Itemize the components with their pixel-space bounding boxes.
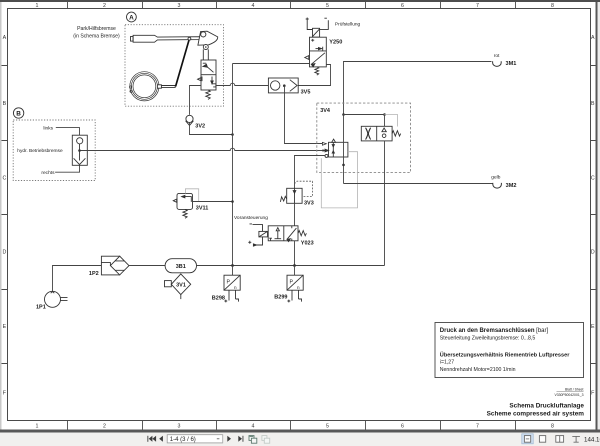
- wire 1P1 to 1P2: [53, 266, 102, 292]
- spring right: [298, 231, 306, 236]
- svg-text:Y250: Y250: [329, 40, 342, 46]
- pressure regulator 3V3: [280, 188, 302, 203]
- toolbar controls: [147, 436, 243, 442]
- svg-text:B: B: [591, 101, 595, 107]
- prev page button: [159, 436, 163, 442]
- svg-text:3V3: 3V3: [304, 200, 314, 206]
- svg-text:1: 1: [36, 424, 39, 430]
- wire hand valve outlet to shuttle 3V5 (with jump): [216, 83, 268, 85]
- svg-text:6: 6: [401, 424, 404, 430]
- bottom cell: flow path with vent: [198, 78, 201, 81]
- vent arrow left: [173, 199, 176, 202]
- svg-text:8: 8: [551, 3, 554, 9]
- coil leads: [307, 21, 312, 30]
- valve body: [268, 226, 298, 241]
- svg-text:Nenndrehzahl Motor=2100 1/min: Nenndrehzahl Motor=2100 1/min: [440, 367, 516, 373]
- svg-text:B: B: [3, 101, 7, 107]
- svg-text:i=1,27: i=1,27: [440, 360, 454, 366]
- wire 3V5 outlet to 3V4 actuator top port: [285, 86, 323, 144]
- air reservoir 3B1: [165, 259, 196, 273]
- terminal +: [248, 241, 256, 246]
- spring below: [183, 209, 187, 218]
- node 3V4 pilot tee left: [342, 113, 345, 116]
- svg-text:3V4: 3V4: [320, 108, 331, 114]
- section B: hydraulic service brake: [13, 108, 95, 181]
- svg-text:B: B: [16, 110, 21, 117]
- lever pull rod (diagonal): [176, 39, 190, 87]
- svg-text:C: C: [2, 176, 6, 182]
- valve body: [310, 37, 327, 67]
- svg-text:B298: B298: [212, 295, 225, 301]
- svg-text:Scheme compressed air system: Scheme compressed air system: [487, 410, 585, 417]
- svg-text:Voransteuerung: Voransteuerung: [234, 215, 268, 221]
- band anchor block: [157, 85, 161, 88]
- svg-text:n: n: [297, 285, 300, 290]
- vent triangle on top: [332, 139, 336, 142]
- wire 3V3 to Y023: [294, 203, 296, 226]
- node service brake output: [78, 149, 81, 152]
- wire 3V11 to supply riser: [193, 201, 233, 203]
- shuttle valve 3V5: [268, 78, 298, 93]
- viewer chrome: bottom toolbar strip: [0, 433, 600, 446]
- viewer chrome: right page edge: [596, 2, 598, 430]
- top cell: blocked seat: [203, 64, 207, 67]
- svg-text:A: A: [129, 14, 134, 21]
- svg-text:3V2: 3V2: [195, 124, 205, 130]
- svg-text:1-4 (3 / 6): 1-4 (3 / 6): [170, 437, 196, 443]
- copy page icons: [249, 436, 270, 444]
- svg-text:hydr. Betriebsbremse: hydr. Betriebsbremse: [17, 148, 63, 154]
- svg-text:6: 6: [401, 3, 404, 9]
- right cell: check valve: [382, 128, 386, 132]
- pilot line (gray) to throttle valve spring side: [385, 115, 398, 127]
- next page button: [227, 436, 231, 442]
- wire master cylinder to 3V4 actuator (with jumps): [81, 148, 323, 150]
- svg-text:Druck an den Bremsanschlüssen: Druck an den Bremsanschlüssen [bar]: [440, 328, 549, 334]
- svg-text:P: P: [290, 280, 294, 286]
- svg-text:1P1: 1P1: [36, 304, 46, 310]
- circle port bottom: [325, 154, 328, 157]
- node 3V11 tee: [231, 200, 234, 203]
- svg-text:Schema Druckluftanlage: Schema Druckluftanlage: [509, 403, 584, 410]
- wire to Y250 inlet: [233, 63, 310, 65]
- balloon label B: [13, 108, 23, 118]
- wire pilot riser through cylinder: [343, 115, 345, 184]
- throttle / check valve 3V4: [361, 126, 400, 141]
- test port 3M1: [344, 62, 492, 115]
- svg-text:3: 3: [178, 424, 181, 430]
- relief valve 3V11: [173, 193, 192, 218]
- svg-text:(in Schema Bremse): (in Schema Bremse): [73, 33, 120, 39]
- terminal +: [306, 18, 309, 21]
- viewer chrome: left gray sliver: [0, 2, 2, 430]
- main bus wire: [197, 265, 385, 267]
- svg-text:Y023: Y023: [301, 241, 314, 247]
- air dryer 1P2: [101, 256, 129, 275]
- spring left: [280, 196, 286, 202]
- node bus B299: [293, 264, 296, 267]
- svg-text:links: links: [43, 126, 53, 132]
- left cell: flow up: [277, 230, 279, 239]
- zoom mode icons right: [522, 434, 533, 444]
- return spring: [315, 67, 319, 75]
- vent arrow: [305, 56, 309, 60]
- svg-text:8: 8: [551, 424, 554, 430]
- svg-text:3M1: 3M1: [506, 61, 517, 67]
- svg-text:5: 5: [326, 424, 329, 430]
- svg-text:E: E: [591, 324, 595, 330]
- pull rod to lever: [161, 86, 175, 88]
- svg-text:2: 2: [103, 424, 106, 430]
- svg-text:Übersetzungsverhältnis Riement: Übersetzungsverhältnis Riementrieb Luftp…: [440, 352, 570, 359]
- solenoid coil: [259, 231, 268, 237]
- solid arrow mid port: [325, 149, 329, 152]
- drain valve 3V1: [165, 274, 191, 299]
- pressure sensor B299: [294, 266, 296, 276]
- svg-text:C: C: [591, 176, 595, 182]
- svg-text:D: D: [2, 250, 6, 256]
- pilot line (gray) cylinder feedback loop: [321, 152, 357, 208]
- svg-text:4: 4: [252, 3, 255, 9]
- wire links port: [56, 128, 80, 136]
- svg-text:3B1: 3B1: [176, 264, 186, 270]
- svg-text:Prüfstellung: Prüfstellung: [335, 21, 361, 27]
- wire 3V4 valve to bus riser: [384, 141, 386, 266]
- plunger link to valve: [203, 49, 208, 60]
- pilot line (dashed) 3V3: [294, 181, 312, 196]
- right cell: blocked diagonal: [287, 228, 296, 239]
- master brake valve: [72, 135, 87, 165]
- svg-text:3V5: 3V5: [301, 90, 311, 96]
- svg-text:4: 4: [252, 424, 255, 430]
- first page button: [146, 436, 149, 442]
- hand brake valve (3/2, cam operated): [198, 60, 216, 99]
- svg-text:D: D: [591, 250, 595, 256]
- svg-text:1: 1: [36, 3, 39, 9]
- return spring: [206, 90, 210, 99]
- balloon label A: [126, 12, 136, 22]
- wire 3V2 to supply node: [190, 123, 233, 135]
- svg-text:1P2: 1P2: [89, 271, 99, 277]
- svg-text:7: 7: [476, 3, 479, 9]
- section A: park/auxiliary brake: [125, 12, 224, 106]
- pressure sensor B298: [232, 266, 234, 276]
- dashed enclosure box A: [125, 25, 224, 107]
- page number input: [167, 435, 223, 443]
- svg-text:3: 3: [178, 3, 181, 9]
- terminal - lead: [250, 224, 263, 245]
- svg-text:Park/Hilfsbremse: Park/Hilfsbremse: [77, 26, 116, 32]
- last page button: [238, 436, 242, 442]
- svg-text:rechts: rechts: [41, 170, 55, 176]
- solenoid valve Y250: [305, 18, 329, 76]
- wire pilot cross link: [344, 115, 385, 127]
- svg-text:3V1: 3V1: [176, 283, 186, 289]
- svg-text:B299: B299: [274, 294, 287, 300]
- svg-text:V330P50042001_3: V330P50042001_3: [554, 393, 583, 397]
- bottom cell: diagonal flow: [311, 53, 325, 65]
- node cylinder drain: [342, 164, 345, 167]
- wire 3V3 inlet from cylinder port: [295, 156, 326, 189]
- node 3V5 outlet: [283, 84, 286, 87]
- dashed enclosure box B: [13, 120, 95, 181]
- wire supply riser (bus to Y250): [232, 64, 234, 266]
- viewer chrome: top dark bar: [0, 0, 600, 2]
- solenoid coil: [313, 28, 320, 37]
- wire Y250 outlet to shuttle 3V5 right port: [298, 65, 330, 86]
- node supply junction: [231, 133, 234, 136]
- unit 3V4 dashed enclosure: [317, 103, 411, 172]
- svg-text:n: n: [234, 285, 237, 290]
- svg-text:Steuerleitung Zweileitungsbrem: Steuerleitung Zweileitungsbremse: 0...8,…: [440, 336, 536, 342]
- svg-text:P: P: [227, 280, 231, 286]
- svg-text:rot: rot: [494, 53, 500, 59]
- svg-text:3M2: 3M2: [506, 183, 517, 189]
- compressor 1P1: [45, 291, 68, 307]
- spring right: [392, 131, 401, 136]
- wire hand valve inlet to check valve 3V2: [190, 86, 202, 115]
- svg-text:Blatt / Sheet: Blatt / Sheet: [565, 387, 584, 391]
- test port 3M2: [344, 183, 493, 185]
- terminal -: [324, 17, 327, 19]
- pilot cylinder of 3V4: [325, 139, 348, 157]
- node 3V4 pilot tee right: [383, 113, 386, 116]
- svg-text:E: E: [3, 324, 7, 330]
- left cell: closed (X): [366, 128, 371, 140]
- wire Y023 to bus: [294, 241, 296, 266]
- ratchet quadrant plate: [198, 31, 218, 60]
- info box: [435, 323, 584, 378]
- svg-text:gelb: gelb: [491, 175, 500, 181]
- check valve 3V2: [186, 115, 194, 125]
- svg-text:5: 5: [326, 3, 329, 9]
- hand lever: [131, 35, 200, 42]
- top cell: blocked: [311, 39, 314, 42]
- node bus B298: [231, 264, 234, 267]
- wire rechts port: [55, 165, 79, 172]
- svg-text:7: 7: [476, 424, 479, 430]
- svg-text:A: A: [3, 35, 7, 41]
- viewer chrome: bottom page edge: [0, 430, 600, 433]
- svg-text:144.16%: 144.16%: [584, 436, 600, 443]
- svg-text:A: A: [591, 35, 595, 41]
- brake drum: [130, 72, 176, 101]
- pilot line (gray) 3V11: [185, 189, 198, 202]
- wire 1P2 to reservoir 3B1: [129, 265, 165, 267]
- svg-text:2: 2: [103, 3, 106, 9]
- svg-text:3V11: 3V11: [196, 206, 209, 212]
